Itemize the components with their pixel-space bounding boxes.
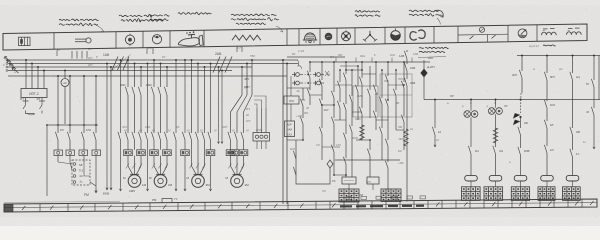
junction [147,63,149,65]
label: control (cursive) [119,14,153,17]
junction tie [95,124,97,126]
band divider [203,30,205,47]
strip tick [287,202,289,210]
terminal block x=562.5 [563,187,581,201]
motor hat bar 1М [130,173,139,175]
terminal block XT2 [381,189,401,202]
contactor 2М contacts [151,132,154,140]
band divider [142,31,144,48]
junction [333,61,335,63]
contact row left [55,132,58,140]
transformer secondary circuit [25,98,27,102]
control chain x=404 [403,62,405,82]
control chain x=310 [309,62,311,72]
resistor R3 [360,125,364,140]
leader arrow tail [437,18,441,25]
feeder drops M1 [127,60,129,87]
relay coil x=471 [465,175,478,181]
band divider [169,31,171,48]
strip tick [315,201,317,209]
strip tick [94,203,96,211]
strip tick [539,199,541,207]
control rail U1 [310,61,430,63]
bell symbol [304,33,316,40]
battery symbol [75,38,86,40]
strip tick [204,202,206,210]
wires to controller [57,156,59,163]
main breaker 1AB [112,57,118,71]
protection loop [296,140,330,184]
strip tick [385,201,387,209]
control feeder pair down [282,60,284,204]
small note (cursive) [543,45,555,46]
control chain x=370 [369,66,371,90]
lamp branch 2ЛС [495,100,497,108]
junction [25,59,27,61]
motor leads 4М [230,156,232,166]
junction [197,63,199,65]
junction [57,75,59,77]
junction [184,59,186,61]
motor leads 2М [153,156,155,166]
strip tick [567,199,569,207]
junction [191,59,193,61]
motor hat bar 4М [232,173,241,175]
junction [369,139,371,141]
signal lamp symbol [342,32,351,41]
terminal block XT1 [339,189,359,202]
valve (faucet) symbol [178,38,199,46]
motor hat bar 3М [193,173,202,175]
contactor 4М contacts [228,132,231,140]
header symbol band [3,24,587,50]
strip tick [67,204,69,212]
branch x435 [434,100,436,129]
motor 1М [128,175,141,188]
strip tick [329,201,331,209]
strip tick [231,202,233,210]
junction [387,99,389,101]
junction [31,63,33,65]
diode D1 [421,69,427,77]
strip tick [469,200,471,208]
strip tick [357,201,359,209]
strip tick [149,203,151,211]
control chain x=346 [345,62,347,74]
label underline [418,57,446,58]
ammeter [64,71,66,79]
right chain 5 [572,56,574,74]
junction [106,63,108,65]
motor leads 1М [127,156,129,166]
label: fuses lamps (cursive) [150,15,169,17]
junction [120,59,122,61]
terminal block x=461.5 [462,187,481,201]
rail stubs [335,58,337,63]
junction [210,63,212,65]
aux feeder 185 [184,60,186,133]
right chain 2KP [521,56,523,72]
strip tick [413,201,415,209]
junction [345,61,347,63]
aux pair 218/222 [218,67,220,140]
push button SB1a [292,74,295,76]
contactor 3М contacts [189,132,192,140]
junction [251,59,253,61]
leader arrow [433,10,443,17]
strip tick [427,200,429,208]
junction tie [83,124,85,126]
band divider [536,25,538,42]
control chain x=322 [321,62,323,80]
right chain 6 [593,56,595,81]
junction [333,174,335,176]
contactor KM2 upper contacts [151,87,154,95]
diode arrows [514,114,520,119]
contactor 1М contacts [125,132,128,140]
strip tick [581,199,583,207]
band divider [319,28,321,45]
junction [403,61,405,63]
label: idle run (cursive) [419,47,448,48]
band divider [433,27,435,44]
pump meter symbol [391,31,401,41]
horn symbol [325,33,333,41]
junction tie [69,124,71,126]
relay coil KM2 [367,177,379,184]
junction [286,63,288,65]
strip tick [371,201,373,209]
junction [153,59,155,61]
rail y160 [335,159,400,161]
junction [361,61,363,63]
aux feeder 176 [175,60,177,133]
aux feeder 147 [147,64,149,134]
frame box mid [353,86,378,117]
resistor (heater) symbol [232,35,261,40]
strip bracket TU [162,199,172,204]
junction [302,139,304,141]
bus N [8,70,232,72]
nested corner feeders M4 [251,60,253,95]
control chain x=352 [351,70,353,96]
aux feeder pair [106,64,108,187]
left feeder drops [57,76,59,133]
band divider [404,27,406,44]
junction [321,61,323,63]
strip mark [388,205,398,207]
label cursive row3 [236,23,266,25]
junction tie [57,124,59,126]
contactor KM1 upper contacts [125,87,128,95]
aux chain 210 with relay [210,64,212,134]
arrow down PM [90,182,97,193]
limit switch cell [458,33,508,36]
bus L3 [8,66,252,68]
feeder drops to transformer [25,60,27,89]
junction [127,59,129,61]
mark above strip [407,196,413,199]
band divider [53,33,55,50]
bus start terminals [6,59,8,61]
converging leads [58,162,72,164]
label: coolant pump (cursive) [231,14,278,16]
bus L2 [8,63,298,65]
h links control [303,87,310,89]
junction [37,66,39,68]
frame box mid2 [380,74,412,117]
junction [69,75,71,77]
dashed controller box [72,160,90,185]
breaker chain 2AB [406,50,408,52]
control chain x=340 [339,70,341,82]
strip tick [441,200,443,208]
junction [166,66,168,68]
strip tick [455,200,457,208]
push button SB2b [313,82,316,84]
diamond lamp [327,160,333,168]
motor 4М [231,175,244,188]
control chain x=396 [395,70,397,90]
leader arrow [96,25,104,32]
resistor R2 [493,128,497,143]
strip mark [416,205,424,207]
junction [64,70,66,72]
strip tick [483,200,485,208]
aux feeder 120 [120,60,122,133]
terminal block x=484 [484,187,503,201]
junction [221,70,223,72]
motor 3М [192,175,205,188]
control rail U2 [424,99,600,101]
band divider [298,29,300,46]
strip mark [340,205,352,207]
junction [403,84,405,86]
leader arrow [276,26,283,32]
bottom terminal strip [4,199,597,212]
band divider [354,28,356,45]
switchgear cabinet symbol [19,37,31,45]
feeder drops M2 [153,60,155,87]
strip tick [553,199,555,207]
junction [387,61,389,63]
strip tick [399,201,401,209]
band divider [286,29,288,46]
motor 2М [154,175,167,188]
band divider [115,32,117,49]
junction [43,70,45,72]
right top rail [517,55,600,57]
junction tie [46,124,48,126]
terminal block x=511.3 [511,187,529,201]
coil LM [284,96,299,104]
junction [361,69,363,71]
junction [218,66,220,68]
diode branch [423,60,425,69]
junction [357,65,359,67]
strip tick [177,203,179,211]
brake coil symbols [542,32,557,35]
junction [309,61,311,63]
push button SB1b [292,82,295,84]
thermal relays 2М [150,150,159,156]
tie line [47,124,98,126]
band divider [384,27,386,44]
junction [83,75,85,77]
feeder drops M3 [191,60,193,133]
mark above strip [392,196,398,199]
label box ШР [285,121,295,137]
strip tick [12,204,14,212]
junction [140,66,142,68]
resistor R1 [404,129,408,146]
lamp symbol [152,35,161,44]
strip mark [356,205,366,207]
strip mark [402,205,412,207]
junction [241,66,243,68]
drop to strip x406 [406,100,408,202]
junction [351,69,353,71]
band feed ticks [146,49,148,55]
breaker 2AB [213,57,220,73]
lamp branch 1ЛС [470,100,472,111]
incoming supply arrows [5,57,12,63]
relay coil x=495.5 [489,175,502,181]
thermal relay boxes [54,150,63,156]
relay coil x=520.5 [514,175,527,181]
label: main drive (cursive) [59,19,98,21]
label: heaters (cursive) [178,12,212,14]
mark above strip [376,196,382,199]
strip end block [4,204,13,212]
junction [95,75,97,77]
junction [381,69,383,71]
junction [282,59,284,61]
junction [333,104,335,106]
band divider [457,26,459,42]
junction [204,66,206,68]
right edge tie [598,56,600,100]
relay coil KM1 [342,177,356,184]
control chain x=370 [369,140,371,150]
mark above strip [346,197,352,200]
selector symbol [518,29,527,38]
label: hydraulic pump (cursive) [409,10,440,12]
strip tick [525,200,527,208]
motor leads 3М [191,150,193,166]
rail top control [287,56,345,58]
push button SB2a [313,74,316,76]
band-to-bus drops [71,51,73,59]
control chain x=362 [361,62,363,78]
control chain x=388 [387,62,389,76]
transformer box [21,89,47,98]
junction [246,63,248,65]
thermal relays 4М [226,150,235,156]
strip cell marks [22,206,25,210]
three-phase star symbol [365,35,371,41]
junction [375,61,377,63]
control chain x=376 [375,62,377,86]
band divider [507,25,509,42]
junction [321,104,323,106]
label cursive row2 [121,19,163,22]
strip tick [259,202,261,210]
mark above strip [420,196,426,199]
strip mark [370,205,383,207]
strip tick [122,203,124,211]
junction [110,66,112,68]
right chain 4 [546,56,548,74]
junction [395,69,397,71]
relay coil x=572.5 [566,175,579,181]
clutch symbol (interlocked C) [410,32,417,40]
junction [134,63,136,65]
control chain x=303 [302,88,304,100]
label: misc clutches (cursive) [355,11,381,13]
bus L1 [8,59,298,61]
junction [160,63,162,65]
control chain x=382 [381,70,383,98]
strip tick [39,204,41,212]
control chain x=334 [333,62,335,92]
terminal block x=538 [538,187,555,201]
plug connector ШР [253,133,270,142]
motor hat bar 2М [156,173,165,175]
instrument symbol [125,35,134,44]
junction [339,69,341,71]
thermal relays 1М [124,150,133,156]
relay coil x=547 [541,175,554,181]
control chain x=358 [357,66,359,86]
mark above strip [361,196,367,199]
button feed arc [298,60,302,69]
strip tick [511,200,513,208]
junction [345,69,347,71]
junction [345,174,347,176]
strip tick [343,201,345,209]
strip tick [497,200,499,208]
control rail [8,75,287,77]
band divider [336,28,338,44]
junction [175,59,177,61]
